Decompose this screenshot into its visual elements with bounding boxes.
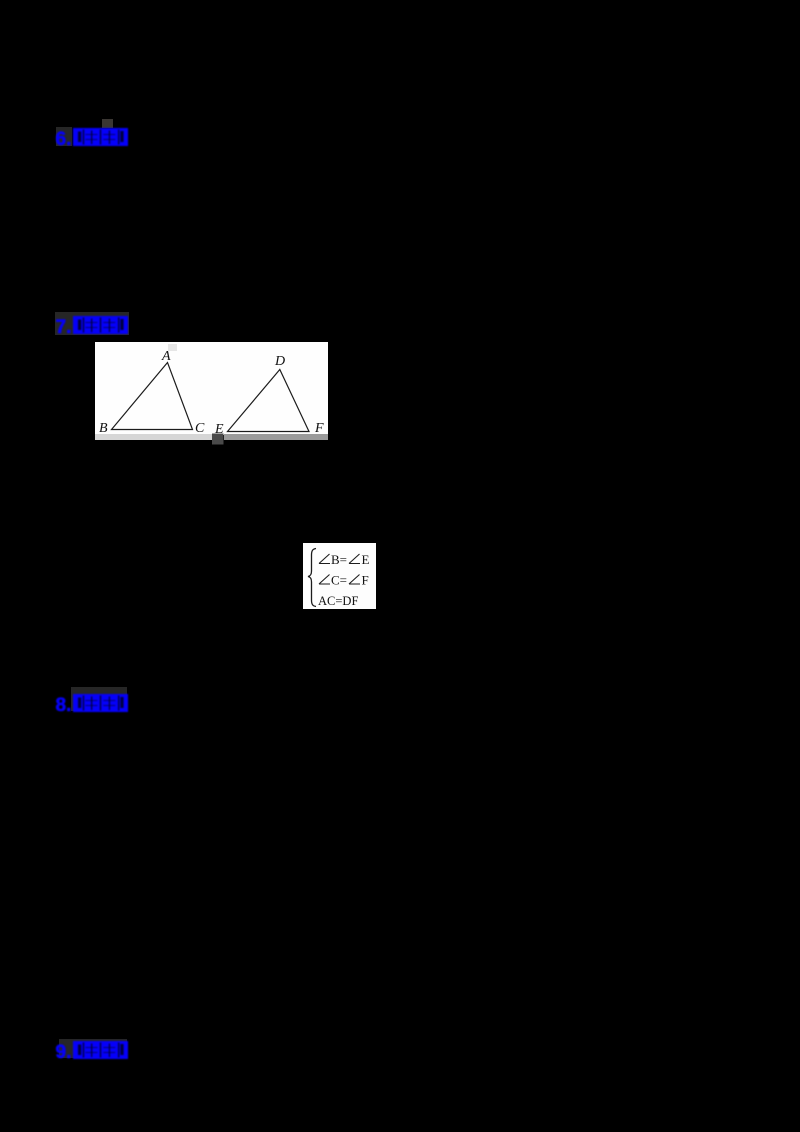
bottom strip light	[95, 434, 213, 440]
svg-text:8.: 8.	[56, 695, 72, 714]
triangles figure box	[95, 342, 328, 445]
svg-text:B: B	[99, 421, 108, 436]
svg-text:E: E	[362, 552, 370, 567]
heading 7 label	[55, 314, 135, 336]
svg-text:E: E	[214, 422, 224, 437]
row 2 angle symbols	[319, 575, 360, 585]
svg-text:6.: 6.	[56, 129, 72, 148]
svg-text:A: A	[161, 349, 171, 364]
svg-text:F: F	[362, 573, 369, 588]
equation system box	[303, 543, 376, 609]
bracketed word block	[73, 694, 128, 712]
heading 9 label	[55, 1039, 135, 1061]
triangle DEF	[228, 370, 310, 432]
svg-text:AC=DF: AC=DF	[318, 594, 358, 608]
white background	[95, 342, 328, 435]
bracketed word block	[73, 128, 128, 146]
faint square above A	[168, 344, 177, 351]
svg-text:7.: 7.	[56, 317, 72, 336]
heading 8 label	[55, 692, 135, 714]
heading 8 highlight	[71, 687, 127, 711]
heading 9 highlight	[59, 1039, 127, 1058]
svg-text:C: C	[195, 421, 205, 436]
svg-text:B=: B=	[331, 552, 347, 567]
bottom strip mid	[224, 434, 328, 440]
heading 6 label	[55, 126, 135, 148]
heading 7 highlight	[55, 312, 129, 335]
triangle ABC	[112, 363, 193, 430]
svg-text:C=: C=	[331, 573, 347, 588]
bottom strip dark under E	[212, 434, 224, 445]
heading 6 number highlight	[56, 127, 72, 146]
row 1 text	[331, 552, 370, 567]
svg-text:9.: 9.	[56, 1042, 72, 1061]
svg-text:F: F	[314, 421, 324, 436]
svg-text:D: D	[274, 354, 285, 369]
row 1 angle symbols	[319, 554, 360, 564]
vertex labels	[99, 349, 324, 437]
curly brace	[308, 549, 316, 607]
bracketed word block	[73, 316, 128, 334]
bracketed word block	[73, 1041, 128, 1059]
row 2 text	[331, 573, 369, 588]
heading 6 caret artifact	[102, 119, 113, 128]
